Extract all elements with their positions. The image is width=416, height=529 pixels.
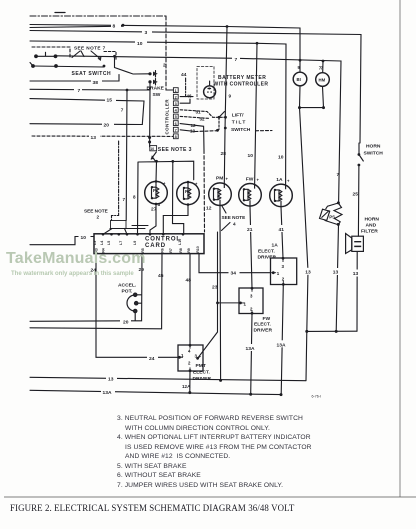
svg-text:L10: L10 — [178, 239, 182, 245]
svg-text:12A: 12A — [182, 384, 191, 389]
svg-text:3: 3 — [145, 30, 148, 36]
svg-text:LIFT/: LIFT/ — [232, 113, 244, 119]
svg-text:44: 44 — [181, 72, 187, 78]
svg-text:10: 10 — [137, 41, 143, 47]
svg-text:25: 25 — [353, 192, 359, 198]
svg-text:6: 6 — [175, 122, 177, 126]
svg-text:46: 46 — [187, 94, 193, 99]
svg-text:SEE NOTE 7: SEE NOTE 7 — [74, 46, 106, 51]
svg-text:SWITCH: SWITCH — [231, 127, 251, 133]
svg-text:20: 20 — [104, 122, 110, 128]
svg-text:48: 48 — [186, 277, 192, 283]
svg-text:15: 15 — [107, 97, 113, 103]
svg-text:1A: 1A — [276, 177, 283, 183]
svg-text:10: 10 — [150, 147, 154, 151]
svg-text:7: 7 — [78, 88, 81, 94]
svg-text:HORN: HORN — [366, 144, 381, 150]
svg-text:13: 13 — [91, 135, 97, 141]
svg-text:1: 1 — [175, 89, 177, 93]
svg-text:POT.: POT. — [122, 289, 134, 295]
svg-text:DRIVER: DRIVER — [258, 254, 277, 260]
svg-text:7: 7 — [235, 57, 238, 63]
svg-text:SWITCH: SWITCH — [364, 151, 384, 157]
svg-text:8: 8 — [158, 202, 161, 208]
svg-text:FILTER: FILTER — [361, 229, 378, 235]
svg-text:3: 3 — [250, 294, 253, 299]
svg-text:13: 13 — [190, 128, 196, 133]
svg-text:SEAT SWITCH: SEAT SWITCH — [72, 71, 112, 77]
svg-text:HORN: HORN — [365, 217, 380, 223]
svg-text:+: + — [195, 182, 198, 187]
svg-text:R9: R9 — [187, 248, 191, 253]
svg-text:8: 8 — [133, 195, 136, 200]
svg-text:2: 2 — [250, 307, 253, 312]
svg-text:2: 2 — [163, 63, 166, 68]
svg-text:20: 20 — [123, 319, 129, 325]
svg-text:1: 1 — [244, 301, 247, 306]
svg-text:PM: PM — [216, 176, 223, 182]
svg-text:7: 7 — [337, 172, 340, 178]
svg-text:4: 4 — [188, 349, 191, 354]
svg-text:7: 7 — [121, 108, 124, 113]
svg-text:L4: L4 — [100, 241, 104, 245]
svg-text:BI: BI — [297, 77, 301, 82]
svg-text:2: 2 — [188, 361, 191, 366]
svg-text:2: 2 — [97, 215, 100, 220]
svg-text:21: 21 — [247, 227, 253, 233]
svg-text:13A: 13A — [103, 390, 112, 396]
svg-text:13: 13 — [108, 377, 114, 383]
svg-text:10: 10 — [248, 153, 254, 159]
svg-text:38: 38 — [93, 80, 99, 86]
svg-text:DRIVER: DRIVER — [193, 376, 212, 382]
svg-text:3: 3 — [282, 264, 285, 269]
svg-text:2: 2 — [175, 95, 177, 99]
svg-text:R6: R6 — [161, 248, 165, 253]
svg-text:13A: 13A — [246, 346, 255, 352]
svg-text:45: 45 — [158, 273, 164, 279]
svg-text:12: 12 — [191, 123, 197, 128]
svg-text:BATTERY METER: BATTERY METER — [218, 75, 266, 81]
svg-text:FW: FW — [246, 176, 254, 182]
svg-text:ACCEL.: ACCEL. — [118, 283, 137, 289]
svg-text:41: 41 — [279, 227, 285, 233]
svg-text:27: 27 — [151, 207, 157, 213]
svg-text:3: 3 — [175, 102, 177, 106]
svg-text:8: 8 — [113, 24, 116, 30]
svg-text:10: 10 — [81, 235, 87, 241]
svg-text:DRIVER: DRIVER — [254, 327, 273, 333]
svg-text:R10: R10 — [196, 246, 200, 253]
svg-text:9: 9 — [229, 94, 232, 99]
svg-text:12: 12 — [206, 206, 212, 212]
svg-text:5: 5 — [175, 115, 177, 119]
svg-text:PMT: PMT — [196, 363, 206, 369]
svg-text:FW: FW — [263, 316, 271, 322]
svg-text:+: + — [287, 179, 290, 184]
svg-text:SEE NOTE 3: SEE NOTE 3 — [158, 147, 192, 153]
svg-text:BRAKE: BRAKE — [147, 86, 165, 92]
svg-text:7: 7 — [123, 197, 126, 202]
svg-text:SEE NOTE: SEE NOTE — [222, 215, 246, 220]
svg-text:6-76-I: 6-76-I — [312, 395, 321, 399]
svg-text:WITH CONTROLLER: WITH CONTROLLER — [214, 82, 269, 88]
svg-text:PS: PS — [329, 215, 335, 220]
svg-text:52: 52 — [200, 117, 206, 122]
svg-text:2: 2 — [282, 277, 285, 282]
svg-text:CARD: CARD — [145, 243, 166, 249]
svg-text:13: 13 — [305, 269, 311, 275]
svg-text:CONTROL: CONTROL — [145, 236, 181, 242]
svg-text:10: 10 — [278, 154, 284, 160]
svg-text:28: 28 — [221, 151, 227, 157]
svg-text:R8: R8 — [179, 248, 183, 253]
svg-text:SW: SW — [153, 92, 161, 98]
svg-text:HM: HM — [319, 78, 326, 83]
svg-text:CONTROLLER: CONTROLLER — [165, 99, 170, 135]
svg-text:23: 23 — [212, 284, 218, 290]
svg-text:34: 34 — [231, 270, 237, 276]
svg-text:51: 51 — [196, 110, 202, 115]
svg-text:L3: L3 — [93, 241, 97, 245]
svg-text:13: 13 — [333, 270, 339, 276]
svg-text:13: 13 — [353, 271, 359, 277]
svg-text:24: 24 — [149, 356, 155, 362]
svg-text:ELECT.: ELECT. — [254, 321, 271, 327]
svg-text:+: + — [163, 181, 166, 186]
svg-text:F: F — [153, 188, 156, 193]
svg-text:AND: AND — [366, 223, 377, 229]
svg-text:1: 1 — [277, 271, 280, 276]
svg-text:ELECT.: ELECT. — [258, 248, 275, 254]
svg-text:SEE NOTE: SEE NOTE — [84, 209, 108, 214]
svg-text:1A: 1A — [272, 243, 279, 249]
svg-text:13A: 13A — [277, 343, 286, 349]
svg-text:L9: L9 — [133, 241, 137, 245]
svg-text:L7: L7 — [119, 241, 123, 245]
svg-text:4: 4 — [233, 222, 236, 227]
svg-text:L5: L5 — [107, 241, 111, 245]
svg-text:+: + — [257, 178, 260, 183]
svg-text:ELECT.: ELECT. — [193, 370, 210, 376]
svg-text:TILT: TILT — [232, 120, 247, 126]
svg-text:8: 8 — [175, 135, 177, 139]
svg-text:+: + — [226, 177, 229, 182]
svg-text:R7: R7 — [169, 248, 173, 253]
svg-text:7: 7 — [175, 128, 177, 132]
